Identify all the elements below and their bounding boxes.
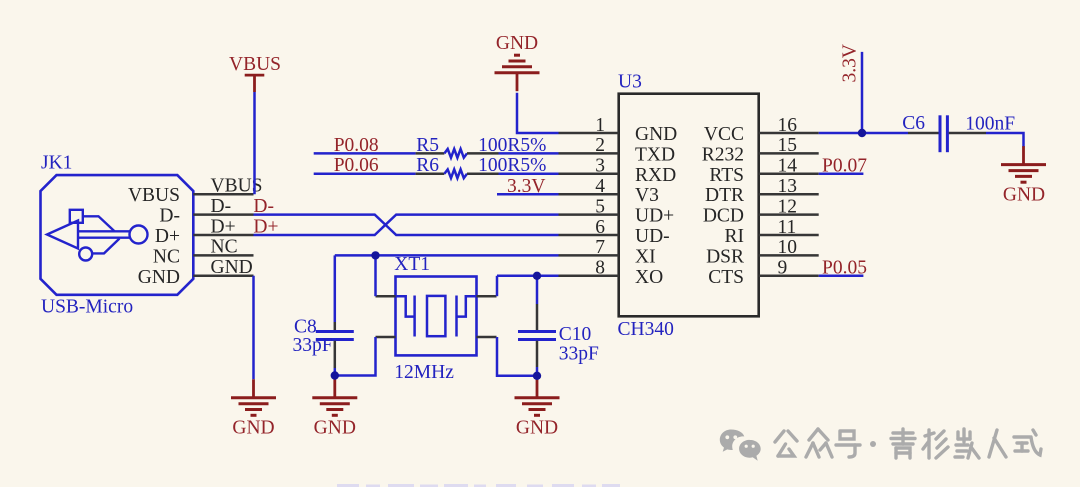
svg-text:GND: GND	[232, 418, 274, 439]
svg-text:D+: D+	[155, 226, 180, 247]
svg-text:16: 16	[778, 115, 798, 136]
svg-text:P0.08: P0.08	[334, 135, 379, 156]
svg-text:XI: XI	[635, 246, 656, 267]
svg-text:5: 5	[595, 196, 605, 217]
svg-text:9: 9	[778, 258, 788, 279]
svg-text:VBUS: VBUS	[229, 54, 281, 75]
svg-text:DCD: DCD	[703, 206, 744, 227]
svg-text:DTR: DTR	[705, 185, 744, 206]
svg-text:RI: RI	[725, 226, 745, 247]
svg-text:RTS: RTS	[709, 165, 744, 186]
svg-text:8: 8	[595, 258, 605, 279]
svg-text:1: 1	[595, 115, 605, 136]
svg-text:XT1: XT1	[394, 254, 430, 275]
svg-text:V3: V3	[635, 185, 659, 206]
svg-text:GND: GND	[314, 418, 356, 439]
svg-text:D-: D-	[211, 196, 232, 217]
svg-text:100R5%: 100R5%	[478, 135, 546, 156]
svg-text:P0.05: P0.05	[822, 258, 867, 279]
svg-text:C6: C6	[902, 113, 925, 134]
svg-text:VCC: VCC	[704, 124, 744, 145]
svg-text:3: 3	[595, 156, 605, 177]
svg-text:USB-Micro: USB-Micro	[41, 297, 133, 318]
svg-text:P0.06: P0.06	[334, 155, 379, 176]
svg-text:CH340: CH340	[618, 319, 674, 340]
svg-text:2: 2	[595, 135, 605, 156]
svg-text:33pF: 33pF	[559, 343, 599, 364]
svg-text:XO: XO	[635, 267, 663, 288]
svg-text:GND: GND	[211, 257, 253, 278]
svg-text:100R5%: 100R5%	[478, 155, 546, 176]
svg-text:11: 11	[778, 217, 797, 238]
svg-text:3.3V: 3.3V	[840, 44, 861, 82]
svg-text:GND: GND	[635, 124, 677, 145]
svg-text:C10: C10	[559, 324, 592, 345]
svg-text:R232: R232	[702, 144, 744, 165]
svg-text:15: 15	[778, 135, 798, 156]
svg-text:3.3V: 3.3V	[507, 176, 545, 197]
svg-text:P0.07: P0.07	[822, 156, 867, 177]
svg-text:12: 12	[778, 196, 798, 217]
svg-text:R5: R5	[416, 135, 439, 156]
svg-text:D-: D-	[159, 206, 180, 227]
svg-text:TXD: TXD	[635, 144, 675, 165]
svg-text:4: 4	[595, 176, 605, 197]
svg-text:U3: U3	[618, 72, 642, 93]
svg-text:NC: NC	[153, 246, 180, 267]
svg-text:10: 10	[778, 237, 798, 258]
svg-text:33pF: 33pF	[293, 335, 333, 356]
svg-text:CTS: CTS	[708, 267, 744, 288]
svg-text:7: 7	[595, 237, 605, 258]
svg-text:RXD: RXD	[635, 165, 676, 186]
svg-text:13: 13	[778, 176, 798, 197]
svg-text:DSR: DSR	[706, 246, 744, 267]
svg-text:GND: GND	[516, 418, 558, 439]
svg-text:R6: R6	[416, 155, 439, 176]
svg-text:UD+: UD+	[635, 206, 674, 227]
svg-text:JK1: JK1	[41, 153, 72, 174]
svg-text:GND: GND	[1003, 185, 1045, 206]
svg-text:NC: NC	[211, 237, 238, 258]
svg-text:100nF: 100nF	[965, 114, 1015, 135]
svg-text:UD-: UD-	[635, 226, 670, 247]
svg-text:GND: GND	[496, 33, 538, 54]
svg-text:D+: D+	[211, 216, 236, 237]
svg-text:12MHz: 12MHz	[394, 362, 454, 383]
svg-text:VBUS: VBUS	[128, 185, 180, 206]
svg-text:14: 14	[778, 156, 798, 177]
svg-text:6: 6	[595, 217, 605, 238]
svg-text:GND: GND	[138, 267, 180, 288]
